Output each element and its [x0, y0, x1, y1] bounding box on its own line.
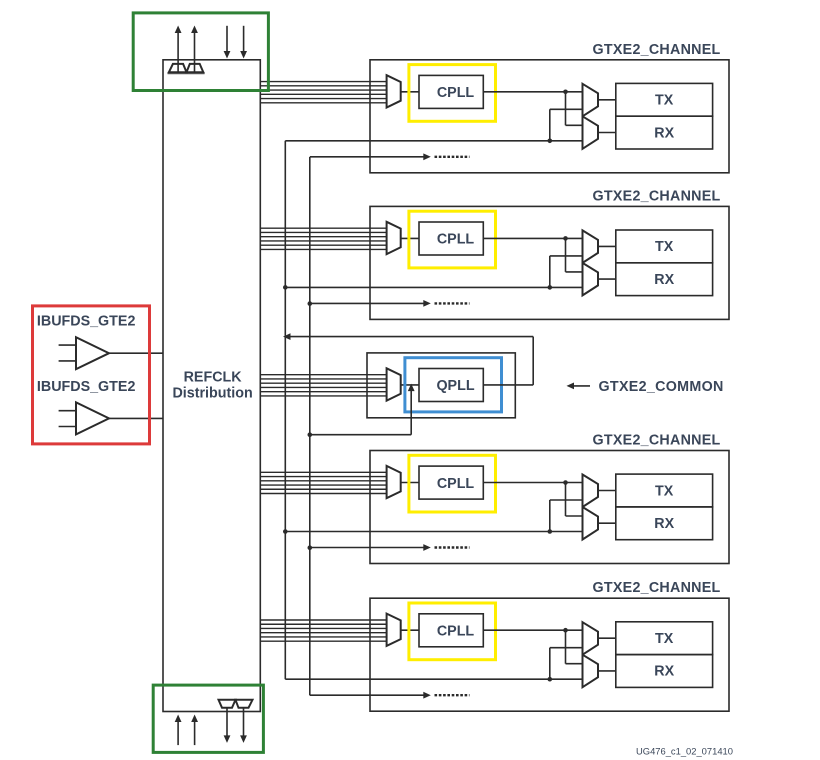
wire QPLL clock into channel: [285, 286, 582, 288]
dashed continuation: [435, 156, 470, 158]
mux M3 (RX clock): [583, 116, 599, 149]
wire mux to CPLL: [401, 629, 419, 631]
buffer U1 IBUFDS_GTE2: [76, 337, 109, 369]
mux M3 (RX clock): [583, 263, 599, 296]
wire south clock stub with arrow: [310, 547, 424, 549]
svg-text:TX: TX: [655, 483, 674, 499]
svg-text:CPLL: CPLL: [437, 476, 475, 492]
svg-text:TX: TX: [655, 239, 674, 255]
CPLL highlight box (yellow): [409, 455, 496, 512]
QPLL box: [419, 369, 483, 402]
junction V1/channel2: [283, 285, 288, 290]
wire QPLL branch to TX mux: [549, 500, 551, 532]
CPLL highlight box (yellow): [409, 603, 496, 660]
mux M1 (refclk select): [387, 75, 401, 107]
RX box: [616, 655, 713, 688]
svg-text:GTXE2_CHANNEL: GTXE2_CHANNEL: [593, 580, 721, 596]
junction QPLL branch: [548, 285, 553, 290]
wire mux to RX: [598, 132, 616, 134]
CPLL box: [419, 222, 483, 255]
wire south in arrow 2: [194, 722, 196, 746]
TX box: [616, 474, 713, 507]
wire CPLL output: [483, 91, 582, 93]
wire QPLL output feedback: [483, 384, 533, 386]
wire CPLL output: [483, 237, 582, 239]
wire QPLL branch to TX mux: [549, 109, 551, 141]
CPLL box: [419, 614, 483, 647]
mux M1 (refclk select): [387, 614, 401, 646]
wire mux to CPLL: [401, 237, 419, 239]
svg-text:GTXE2_CHANNEL: GTXE2_CHANNEL: [593, 433, 721, 449]
refclk bus (6 wires): [260, 81, 386, 83]
mux M3 (RX clock): [583, 655, 599, 688]
wire north in arrow 1: [226, 26, 228, 52]
wire QPLL clock into channel: [285, 531, 582, 533]
wire U1 output: [109, 352, 163, 354]
mux M2 (TX clock): [583, 230, 599, 263]
wire U2 inputs: [59, 410, 76, 412]
wire south out arrow 2: [243, 708, 245, 736]
wire mux to TX: [598, 637, 616, 639]
REFCLK Distribution block: [163, 60, 260, 712]
refclk bus (6 wires): [260, 619, 386, 621]
svg-text:IBUFDS_GTE2: IBUFDS_GTE2: [37, 379, 136, 395]
junction QPLL branch: [548, 529, 553, 534]
wire south clock stub with arrow: [310, 156, 424, 158]
junction QPLL branch: [548, 139, 553, 144]
buffer north base shadow: [168, 72, 205, 74]
wire V2 feed to QPLL input: [310, 434, 411, 436]
refclk bus (6 wires): [260, 471, 386, 473]
refclk bus to QPLL mux (6 wires): [260, 374, 386, 376]
wire CPLL output: [483, 482, 582, 484]
svg-text:RX: RX: [654, 664, 674, 680]
wire south in arrow 1: [177, 722, 179, 746]
svg-text:CPLL: CPLL: [437, 85, 475, 101]
junction CPLL out: [563, 90, 568, 95]
buffer north B2 (trapezoid): [187, 64, 204, 72]
net south clock vertical V2: [309, 157, 311, 695]
dashed continuation: [435, 546, 470, 548]
svg-text:GTXE2_CHANNEL: GTXE2_CHANNEL: [593, 42, 721, 58]
TX box: [616, 83, 713, 116]
svg-text:RX: RX: [654, 516, 674, 532]
wire U2 output: [109, 417, 163, 419]
svg-text:TX: TX: [655, 631, 674, 647]
GTXE2_COMMON label arrow: [572, 385, 590, 387]
GTXE2_CHANNEL box: [370, 451, 729, 564]
junction CPLL out: [563, 628, 568, 633]
wire QPLL branch to TX mux: [549, 648, 551, 680]
GTXE2_COMMON box: [367, 353, 515, 418]
CPLL highlight box (yellow): [409, 65, 496, 122]
wire mux to CPLL: [401, 482, 419, 484]
buffer south B3 (trapezoid): [219, 700, 236, 708]
CPLL box: [419, 466, 483, 499]
junction QPLL branch: [548, 677, 553, 682]
wire CPLL output: [483, 629, 582, 631]
RX box: [616, 116, 713, 149]
RX box: [616, 507, 713, 540]
junction V2/channel2: [308, 301, 313, 306]
svg-text:GTXE2_CHANNEL: GTXE2_CHANNEL: [593, 188, 721, 204]
svg-text:GTXE2_COMMON: GTXE2_COMMON: [599, 379, 724, 395]
wire south out arrow 1: [226, 708, 228, 736]
wire mux to RX: [598, 670, 616, 672]
GTXE2_CHANNEL box: [370, 60, 729, 173]
TX box: [616, 230, 713, 263]
mux M3 (RX clock): [583, 507, 599, 540]
junction V1/channel3: [283, 529, 288, 534]
junction V2/channel3: [308, 545, 313, 550]
wire north in arrow 2: [243, 26, 245, 52]
svg-text:CPLL: CPLL: [437, 624, 475, 640]
wire CPLL out drop to RX mux: [565, 630, 567, 664]
mux M2 (TX clock): [583, 84, 599, 117]
TX box: [616, 622, 713, 655]
junction CPLL out: [563, 236, 568, 241]
svg-text:CPLL: CPLL: [437, 232, 475, 248]
junction V2/QPLL feed: [308, 432, 313, 437]
wire CPLL out drop to RX mux: [565, 483, 567, 517]
wire QPLL clock into channel: [285, 140, 582, 142]
svg-text:RX: RX: [654, 125, 674, 141]
wire south clock stub with arrow: [310, 694, 424, 696]
mux M1 (refclk select): [387, 222, 401, 254]
wire north out arrow 1: [177, 33, 179, 73]
arrow QPLL out into V1: [283, 333, 291, 340]
wire mux to CPLL: [401, 91, 419, 93]
svg-text:QPLL: QPLL: [436, 378, 474, 394]
wire U1 inputs: [59, 344, 76, 346]
buffer U2 IBUFDS_GTE2: [76, 402, 109, 434]
GTXE2_CHANNEL box: [370, 206, 729, 319]
svg-text:UG476_c1_02_071410: UG476_c1_02_071410: [636, 746, 733, 757]
svg-text:TX: TX: [655, 93, 674, 109]
RX box: [616, 263, 713, 296]
GTXE2_CHANNEL box: [370, 598, 729, 711]
net QPLL clock vertical V1: [284, 141, 286, 679]
mux M1 (refclk select): [387, 466, 401, 498]
wire mux to QPLL: [401, 384, 419, 386]
wire mux to TX: [598, 245, 616, 247]
refclk bus (6 wires): [260, 227, 386, 229]
buffer south B4 (trapezoid): [236, 700, 253, 708]
south highlight box (green): [153, 685, 263, 752]
mux M4 (QPLL refclk select): [387, 368, 401, 400]
mux M2 (TX clock): [583, 475, 599, 508]
dashed continuation: [435, 302, 470, 304]
wire north out arrow 2: [194, 33, 196, 73]
svg-text:IBUFDS_GTE2: IBUFDS_GTE2: [37, 313, 136, 329]
buffer north B1 (trapezoid): [169, 64, 187, 72]
svg-text:Distribution: Distribution: [172, 385, 252, 401]
wire QPLL clock into channel: [285, 678, 582, 680]
CPLL highlight box (yellow): [409, 211, 496, 268]
wire mux to RX: [598, 522, 616, 524]
QPLL highlight box (blue): [405, 358, 502, 412]
svg-text:REFCLK: REFCLK: [184, 370, 243, 386]
CPLL box: [419, 75, 483, 108]
north highlight box (green): [133, 13, 268, 91]
svg-text:RX: RX: [654, 272, 674, 288]
junction CPLL out: [563, 480, 568, 485]
mux M2 (TX clock): [583, 622, 599, 655]
wire QPLL branch to TX mux: [549, 256, 551, 288]
wire CPLL out drop to RX mux: [565, 92, 567, 126]
wire mux to TX: [598, 490, 616, 492]
wire CPLL out drop to RX mux: [565, 238, 567, 272]
arrow into QPLL input: [408, 384, 415, 392]
IBUFDS highlight box (red): [33, 306, 150, 444]
wire south clock stub with arrow: [310, 302, 424, 304]
wire mux to RX: [598, 278, 616, 280]
wire mux to TX: [598, 99, 616, 101]
dashed continuation: [435, 694, 470, 696]
